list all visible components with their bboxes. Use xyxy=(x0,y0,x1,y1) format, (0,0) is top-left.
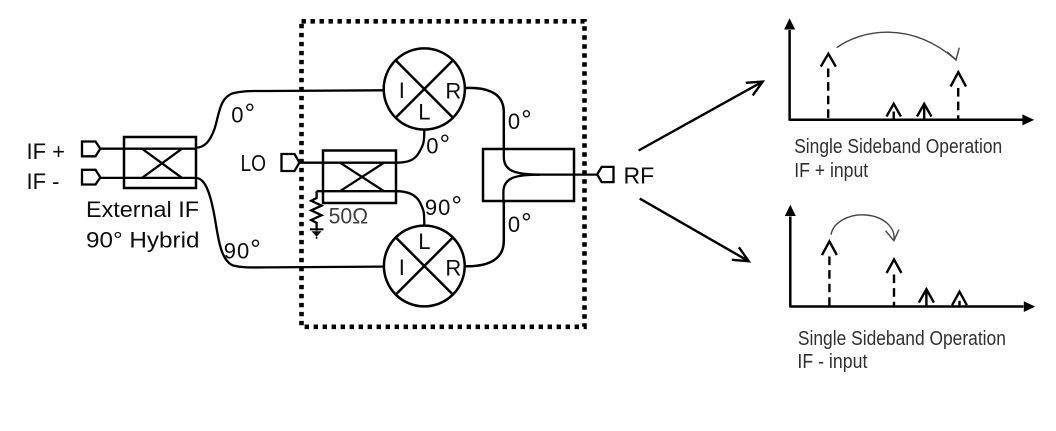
svg-text:0°: 0° xyxy=(508,208,533,238)
svg-text:50Ω: 50Ω xyxy=(329,204,369,229)
svg-text:IF +: IF + xyxy=(27,139,66,164)
svg-text:R: R xyxy=(445,255,461,280)
svg-text:90°: 90° xyxy=(224,235,262,265)
svg-text:I: I xyxy=(399,255,405,280)
svg-text:90°: 90° xyxy=(425,191,463,221)
svg-text:0°: 0° xyxy=(426,130,451,160)
svg-text:Single Sideband Operation: Single Sideband Operation xyxy=(798,328,1006,350)
svg-text:90° Hybrid: 90° Hybrid xyxy=(86,227,200,252)
svg-text:0°: 0° xyxy=(231,98,256,128)
svg-text:IF -: IF - xyxy=(27,169,60,194)
svg-text:Single Sideband Operation: Single Sideband Operation xyxy=(794,136,1002,158)
svg-text:R: R xyxy=(445,79,461,104)
svg-text:LO: LO xyxy=(241,150,267,176)
svg-text:External IF: External IF xyxy=(86,197,199,222)
svg-text:IF - input: IF - input xyxy=(797,351,867,373)
svg-text:RF: RF xyxy=(624,163,655,189)
svg-text:0°: 0° xyxy=(508,105,533,135)
svg-text:IF + input: IF + input xyxy=(794,160,868,182)
svg-text:L: L xyxy=(418,229,430,254)
svg-text:L: L xyxy=(418,99,430,124)
svg-text:I: I xyxy=(399,78,405,103)
